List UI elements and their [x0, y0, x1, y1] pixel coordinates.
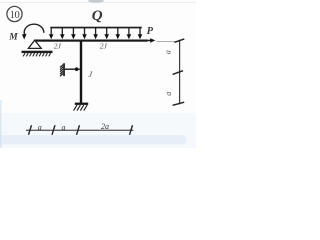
- svg-text:a: a: [62, 123, 66, 132]
- svg-text:a: a: [38, 123, 42, 132]
- svg-text:P: P: [147, 26, 154, 37]
- svg-text:a: a: [164, 92, 173, 96]
- svg-text:2J: 2J: [100, 41, 108, 50]
- svg-text:a: a: [164, 50, 173, 54]
- svg-text:Q: Q: [92, 8, 103, 24]
- svg-text:2a: 2a: [101, 122, 109, 131]
- svg-text:10: 10: [10, 10, 20, 21]
- svg-text:M: M: [8, 32, 18, 42]
- svg-text:2J: 2J: [54, 41, 62, 50]
